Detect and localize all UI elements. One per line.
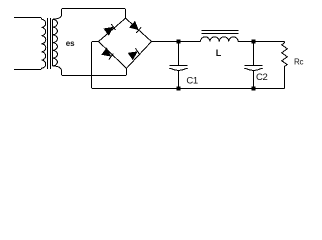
svg-text:C2: C2 [256,72,267,83]
junction node at C2 top [252,40,256,44]
diode D3 (lower left) [102,49,110,56]
capacitor C1 top lead [178,42,180,66]
transformer T1 core [48,18,51,69]
transformer T1 primary winding [42,19,46,68]
capacitor C1 bottom lead [178,71,180,89]
diode D4 (lower right) [129,52,137,59]
wire secondary top lead to bridge top node [53,9,126,20]
capacitor C2 top plate [245,65,263,67]
svg-text:C1: C1 [186,76,197,87]
resistor Rc zigzag with leads [282,42,288,89]
wire top input lead [14,18,42,20]
diode D2 (upper right) [130,22,138,30]
wire DC plus top rail (right part) [238,41,284,43]
junction node at C1 bottom [177,87,181,91]
junction node at C2 bottom [252,87,256,91]
svg-text:L: L [216,48,222,58]
wire DC minus drop from left vertex to bottom rail [92,42,99,89]
wire secondary bottom lead / AC return rail [53,66,127,76]
svg-text:Rc: Rc [294,58,303,67]
wire DC plus top rail (left part) [152,41,201,43]
inductor L core lines [202,31,239,34]
wire bottom input lead [14,68,42,69]
inductor L winding [201,37,239,42]
capacitor C2 top lead [253,42,255,66]
transformer T1 secondary winding [53,19,58,66]
capacitor C2 curved plate [244,68,263,70]
capacitor C2 bottom lead [253,71,255,89]
wire bottom DC rail [93,88,285,90]
capacitor C1 top plate [170,65,188,67]
diode D1 (upper left) [104,28,112,35]
capacitor C1 curved plate [169,68,188,70]
junction node at C1 top [177,40,181,44]
svg-text:es: es [66,39,75,48]
bridge diamond wiring [99,18,152,68]
